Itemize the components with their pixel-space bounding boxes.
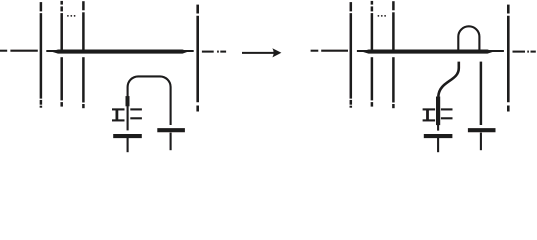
band right leg below line: [480, 62, 483, 125]
strand 1R (vertical strand, x=350.8): [350, 2, 353, 108]
strand 3 (vertical strand, x=83.4): [82, 1, 85, 108]
thick horizontal band line: [51, 50, 189, 54]
band left leg thick segment: [436, 97, 440, 126]
thick horizontal band line: [362, 50, 495, 54]
ellipsis dots: [67, 15, 76, 17]
band right leg below foot bar: [480, 133, 482, 151]
left foot bar: [424, 134, 453, 138]
band left leg below foot bar: [437, 138, 439, 152]
band left leg S-curve below line: [438, 62, 459, 97]
omega loop above line (slid band): [458, 26, 479, 49]
thin surface line across: [46, 50, 193, 52]
band left leg continuation: [437, 125, 439, 131]
dashed surface line, right of diagram: [513, 51, 536, 53]
band left leg continuation: [127, 106, 129, 130]
band left leg thick segment: [126, 96, 130, 106]
dashed surface line, left of diagram: [0, 50, 38, 52]
right foot bar: [468, 128, 496, 132]
strand 3R (vertical strand, x=393.4): [392, 1, 395, 108]
arrow head: [272, 48, 281, 57]
I-beam mark left of band leg: [112, 109, 125, 120]
band left leg below foot bar: [127, 138, 129, 152]
band cap arch with right leg: [128, 76, 171, 125]
strand 1 (vertical strand, x=40.9): [40, 2, 43, 108]
double bars right of band leg: [130, 109, 142, 118]
ellipsis dots: [378, 15, 387, 17]
I-beam mark left of band leg: [423, 109, 436, 120]
left foot bar: [113, 134, 142, 138]
arrow shaft: [242, 52, 275, 54]
strand 2 (vertical strand, x=61.7): [60, 1, 63, 107]
strand 4 (vertical strand, x=197.7): [196, 5, 199, 112]
dashed surface line, right of diagram: [202, 51, 226, 53]
strand 4R (vertical strand, x=508.3): [507, 5, 510, 112]
right foot bar: [157, 128, 185, 132]
band right leg below foot bar: [170, 133, 172, 151]
thin surface line across: [357, 50, 504, 52]
strand 2R (vertical strand, x=371.9): [371, 1, 374, 107]
dashed surface line, left of diagramR: [311, 50, 348, 52]
double bars right of band leg: [441, 109, 453, 118]
